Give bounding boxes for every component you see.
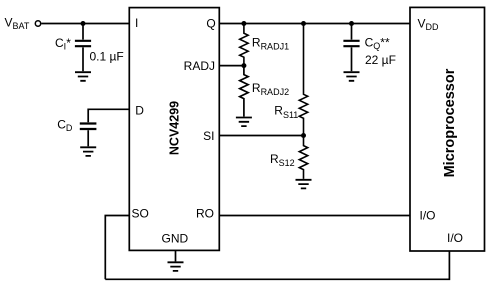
- svg-text:I/O: I/O: [447, 231, 463, 245]
- ground below C_I: [75, 72, 91, 81]
- wire VBAT to pin I: [41, 23, 129, 25]
- svg-text:GND: GND: [162, 232, 189, 246]
- svg-text:RADJ: RADJ: [184, 59, 215, 73]
- wire pin D to C_D: [88, 109, 129, 122]
- svg-text:RS12: RS12: [270, 152, 295, 168]
- svg-text:VBAT: VBAT: [5, 16, 30, 32]
- wire GND pin: [175, 250, 177, 261]
- wire SI pin: [219, 135, 303, 137]
- svg-text:RS11: RS11: [274, 104, 298, 120]
- capacitor C_I bottom wire: [82, 47, 84, 71]
- svg-text:SI: SI: [203, 129, 214, 143]
- ground below R_S12: [296, 180, 312, 189]
- capacitor C_D bottom wire: [87, 130, 89, 146]
- wire RADJ pin: [219, 65, 244, 67]
- capacitor C_I branch wire top: [82, 24, 84, 40]
- IC U1 NCV4299 box: [129, 8, 219, 251]
- svg-text:I: I: [135, 16, 138, 30]
- resistor R_S11: [299, 24, 307, 136]
- svg-text:NCV4299: NCV4299: [168, 101, 182, 155]
- junction node Q/R_S11: [301, 21, 306, 26]
- bottom wire SO to I/O: [105, 251, 449, 279]
- junction node Q/C_Q: [349, 21, 354, 26]
- svg-text:RRADJ1: RRADJ1: [252, 36, 289, 52]
- junction node on VBAT wire: [81, 21, 86, 26]
- resistor R_RADJ1: [240, 24, 248, 66]
- svg-text:SO: SO: [132, 207, 149, 221]
- ground below R_RADJ2: [236, 118, 252, 127]
- svg-text:Microprocessor: Microprocessor: [442, 68, 458, 177]
- svg-text:I/O: I/O: [420, 208, 436, 222]
- svg-text:D: D: [135, 104, 144, 118]
- ground below C_Q: [344, 72, 360, 81]
- capacitor C_Q plates: [343, 41, 359, 46]
- wire Q to VDD: [219, 23, 410, 25]
- junction node RADJ: [241, 63, 246, 68]
- svg-text:RO: RO: [196, 207, 214, 221]
- microprocessor U2 box: [410, 7, 485, 251]
- svg-text:CQ**: CQ**: [365, 35, 390, 51]
- resistor R_RADJ2: [240, 66, 248, 117]
- ground below GND pin: [168, 262, 184, 271]
- wire SO down: [105, 216, 129, 280]
- svg-text:Q: Q: [206, 16, 215, 30]
- svg-text:RRADJ2: RRADJ2: [252, 81, 289, 97]
- svg-text:0.1 µF: 0.1 µF: [90, 50, 124, 64]
- capacitor C_Q branch wire top: [351, 24, 353, 40]
- junction node Q/R_RADJ1: [241, 21, 246, 26]
- svg-text:CI*: CI*: [55, 36, 71, 52]
- capacitor C_D plates: [80, 124, 97, 130]
- V_BAT input terminal: [35, 21, 40, 26]
- ground below C_D: [80, 147, 96, 156]
- junction node SI: [301, 133, 306, 138]
- capacitor C_Q bottom wire: [351, 47, 353, 71]
- svg-text:CD: CD: [57, 117, 73, 133]
- resistor R_S12: [299, 136, 307, 179]
- svg-text:VDD: VDD: [418, 17, 440, 32]
- svg-text:22 µF: 22 µF: [365, 53, 396, 67]
- wire RO to I/O: [219, 215, 410, 217]
- capacitor C_I plates: [75, 41, 91, 46]
